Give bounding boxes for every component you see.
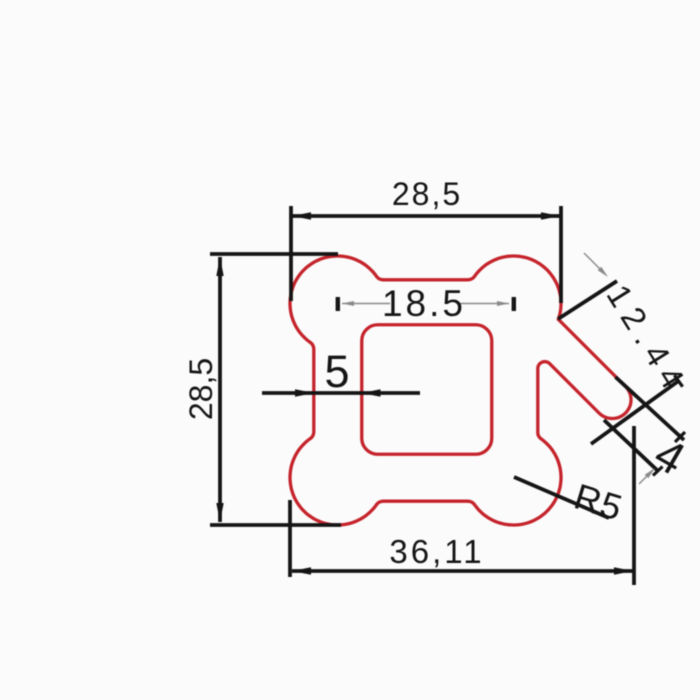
svg-text:36,11: 36,11	[389, 533, 484, 570]
svg-text:28,5: 28,5	[183, 358, 219, 420]
svg-text:5: 5	[324, 346, 349, 397]
svg-text:28,5: 28,5	[392, 176, 462, 212]
svg-text:18.5: 18.5	[382, 283, 466, 324]
